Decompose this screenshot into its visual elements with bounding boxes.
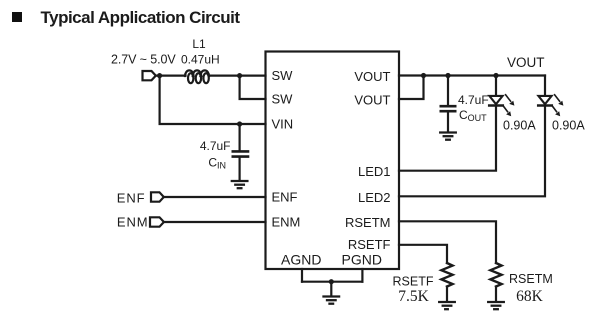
title bullet square — [12, 12, 22, 22]
wire LED1 anode stem — [495, 76, 497, 96]
wire ENM to pin — [164, 221, 266, 223]
svg-text:L1: L1 — [192, 37, 206, 51]
resistor RSETM 68K — [490, 263, 501, 287]
svg-text:ENM: ENM — [117, 215, 149, 230]
IC U1 body — [266, 52, 400, 270]
LED D1 emission arrows — [503, 95, 514, 116]
wire ENF to pin — [164, 196, 266, 198]
capacitor COUT 4.7uF — [441, 106, 455, 111]
svg-text:ENM: ENM — [272, 215, 301, 230]
svg-text:VIN: VIN — [272, 117, 294, 132]
node input junction dot — [157, 73, 162, 78]
LED D1 — [489, 96, 503, 106]
ground (COUT) — [440, 133, 456, 140]
wire VOUT2 branch — [399, 76, 424, 100]
svg-text:0.90A: 0.90A — [503, 119, 536, 133]
svg-text:VOUT: VOUT — [507, 55, 545, 70]
inductor L1 — [185, 70, 209, 83]
wire AGND-PGND join — [302, 281, 362, 283]
svg-text:RSETM: RSETM — [345, 215, 391, 230]
svg-text:LED2: LED2 — [358, 190, 391, 205]
node CIN tap dot — [237, 121, 242, 126]
svg-text:2.7V ~ 5.0V: 2.7V ~ 5.0V — [111, 53, 176, 67]
wire RSETM to ground — [495, 287, 497, 302]
svg-text:ENF: ENF — [272, 190, 298, 205]
svg-text:68K: 68K — [516, 288, 544, 305]
svg-text:RSETM: RSETM — [509, 272, 553, 286]
node ground junction dot — [329, 279, 334, 284]
svg-text:4.7uF: 4.7uF — [458, 93, 489, 107]
input connector ENF — [151, 192, 164, 201]
svg-text:PGND: PGND — [342, 251, 382, 267]
wire inductor to SW pin — [209, 74, 266, 76]
wire LED2 anode corner — [544, 76, 546, 96]
svg-text:SW: SW — [272, 92, 294, 107]
node COUT tap dot — [445, 73, 450, 78]
wire input down to VIN — [160, 76, 266, 124]
wire CIN stem top — [239, 124, 241, 150]
LED D2 — [538, 96, 552, 106]
wire LED2 cathode down and back to pin — [399, 106, 545, 196]
capacitor CIN 4.7uF — [233, 151, 248, 156]
svg-text:LED1: LED1 — [358, 164, 391, 179]
svg-text:VOUT: VOUT — [354, 93, 390, 108]
wire input to inductor (node SW rail left) — [156, 74, 186, 76]
ground (CIN) — [232, 181, 248, 188]
wire AGND bottom pin — [301, 269, 303, 282]
wire PGND bottom pin — [361, 269, 363, 282]
node SW2 tap dot — [237, 73, 242, 78]
svg-text:0.90A: 0.90A — [552, 119, 585, 133]
svg-text:Typical Application Circuit: Typical Application Circuit — [41, 8, 241, 27]
wire RSETF to ground — [446, 287, 448, 302]
svg-text:7.5K: 7.5K — [398, 288, 429, 305]
wire COUT stem bottom — [447, 112, 449, 131]
svg-text:VOUT: VOUT — [354, 69, 390, 84]
svg-text:CIN: CIN — [208, 155, 226, 170]
svg-text:SW: SW — [272, 68, 294, 83]
wire SW2 branch — [240, 76, 266, 99]
node VOUT2 tap dot — [421, 73, 426, 78]
wire COUT stem top — [447, 76, 449, 105]
resistor RSETF 7.5K — [441, 263, 452, 287]
svg-text:COUT: COUT — [459, 108, 487, 123]
node LED1 anode dot — [493, 73, 498, 78]
wire VOUT rail — [399, 74, 545, 76]
ground (RSETF) — [439, 302, 455, 309]
svg-text:4.7uF: 4.7uF — [200, 139, 231, 153]
input connector J1 (2.7V ~ 5.0V) — [143, 71, 156, 80]
wire CIN stem bottom — [239, 158, 241, 180]
LED D2 emission arrows — [552, 95, 563, 116]
svg-text:RSETF: RSETF — [348, 237, 391, 252]
svg-text:RSETF: RSETF — [393, 275, 434, 289]
svg-text:0.47uH: 0.47uH — [181, 53, 220, 67]
svg-text:ENF: ENF — [117, 190, 146, 205]
input connector ENM — [150, 217, 164, 226]
wire RSETF pin to resistor — [399, 245, 447, 263]
svg-text:AGND: AGND — [281, 251, 321, 267]
ground (AGND/PGND) — [324, 297, 340, 304]
wire RSETM pin to resistor — [399, 221, 496, 263]
ground (RSETM) — [488, 302, 504, 309]
wire junction to ground — [330, 282, 332, 296]
wire LED1 cathode down and back to pin — [399, 106, 496, 170]
